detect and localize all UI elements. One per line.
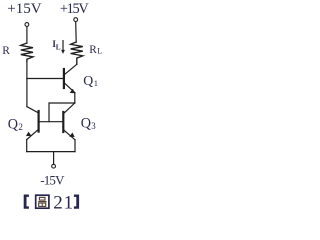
current arrow IL bbox=[62, 41, 64, 52]
caption bracket left bbox=[24, 195, 29, 209]
svg-text:1: 1 bbox=[64, 193, 74, 214]
resistor R bbox=[21, 43, 33, 61]
svg-text:1: 1 bbox=[94, 78, 98, 88]
terminal -15V bbox=[52, 164, 56, 168]
svg-text:L: L bbox=[97, 47, 102, 56]
wire Q1 emitter down bbox=[74, 93, 76, 103]
wire bottom rail bbox=[27, 151, 75, 153]
svg-text:Q: Q bbox=[83, 73, 93, 88]
svg-text:+15V: +15V bbox=[60, 1, 89, 17]
svg-text:R: R bbox=[2, 45, 10, 57]
caption hanzi figure bbox=[36, 195, 49, 208]
wire stub to -15V bbox=[53, 152, 55, 165]
svg-text:-15V: -15V bbox=[40, 172, 65, 187]
svg-text:L: L bbox=[56, 43, 61, 51]
svg-text:2: 2 bbox=[18, 122, 23, 132]
svg-text:Q: Q bbox=[8, 116, 18, 132]
svg-text:R: R bbox=[89, 44, 97, 56]
wire Q3 emitter down bbox=[74, 140, 76, 152]
transistor Q2 bbox=[37, 111, 39, 132]
terminal +15V left bbox=[25, 23, 29, 27]
transistor Q3 bbox=[62, 112, 64, 132]
svg-text:3: 3 bbox=[91, 121, 96, 131]
wire bbox=[26, 27, 28, 43]
caption bracket right bbox=[74, 195, 79, 209]
wire Q2 emitter down bbox=[26, 140, 28, 152]
resistor RL bbox=[71, 42, 83, 64]
wire base rail bbox=[39, 121, 64, 123]
wire bbox=[75, 22, 78, 42]
svg-text:Q: Q bbox=[81, 115, 91, 131]
wire node A to Q1 base bbox=[27, 78, 63, 80]
wire bbox=[26, 61, 28, 106]
svg-text:2: 2 bbox=[53, 193, 63, 214]
transistor Q1 bbox=[63, 69, 65, 88]
terminal +15V right bbox=[74, 18, 78, 22]
wire jog to bases bbox=[49, 103, 75, 122]
svg-text:+15V: +15V bbox=[7, 1, 41, 17]
